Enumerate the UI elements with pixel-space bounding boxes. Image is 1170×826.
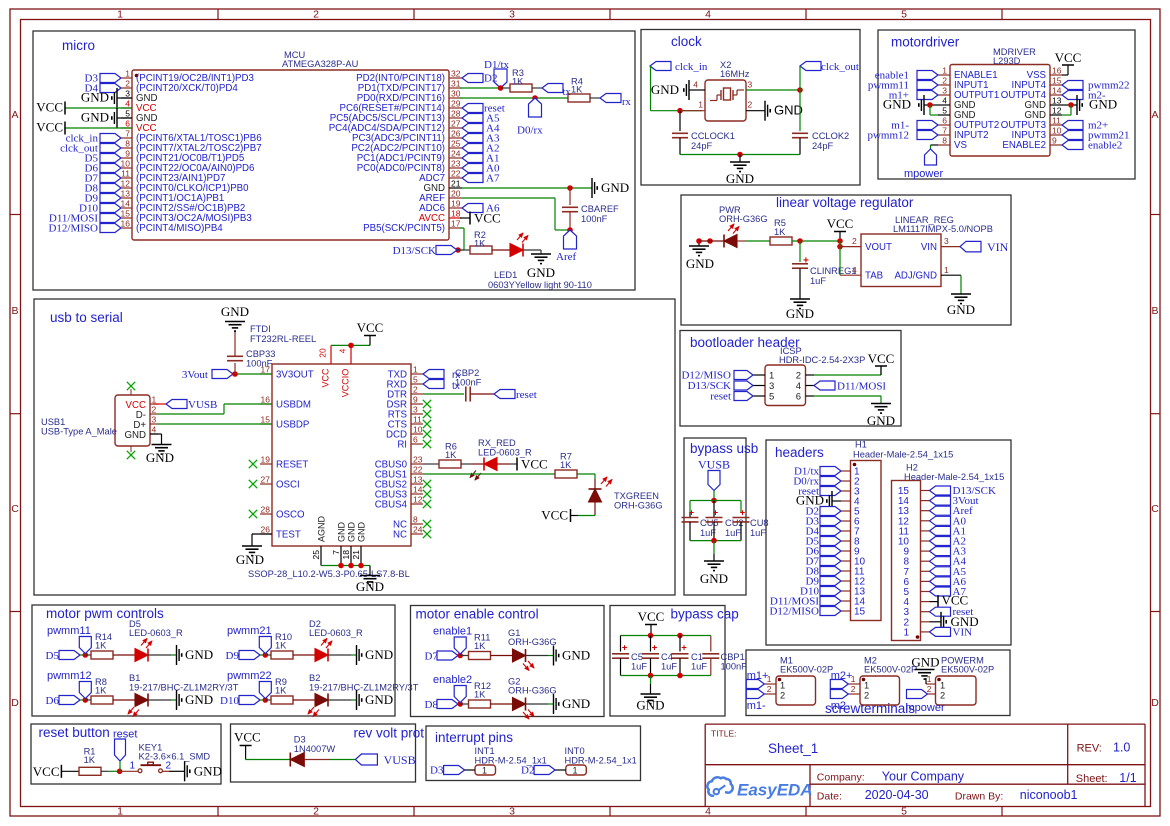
block box: usb to serial	[34, 299, 675, 595]
H1 pin 5	[841, 510, 851, 512]
wire R10 to LED	[293, 654, 315, 656]
MCU pin 2 (PCINT20/XCK/T0)PD4 stub	[121, 87, 132, 89]
svg-text:ORH-G36G: ORH-G36G	[508, 686, 557, 696]
FT232RL pin 26 TEST	[260, 533, 272, 535]
netflag A3 (H2)	[930, 547, 951, 556]
MCU pin 19 ADC6 stub	[449, 207, 462, 209]
wire CBUS1 to R7	[423, 473, 555, 475]
H2 pin 3	[921, 611, 930, 613]
svg-text:GND: GND	[337, 522, 347, 543]
svg-text:mpower: mpower	[906, 702, 945, 714]
svg-text:1: 1	[117, 9, 123, 21]
wire to gnd bypass cap	[650, 676, 652, 685]
gnd flag H2 pin2	[930, 621, 942, 623]
svg-text:m2+: m2+	[831, 670, 853, 682]
svg-text:20: 20	[318, 348, 328, 358]
svg-text:4: 4	[125, 99, 130, 109]
wire down to CLINREG	[799, 241, 801, 262]
block box: linear voltage regulator	[681, 195, 1011, 325]
svg-text:GND: GND	[686, 256, 714, 271]
netflag pwmm21 (L293D)	[1062, 131, 1083, 140]
netflag D8	[437, 700, 458, 709]
capacitor CBP1	[710, 636, 712, 652]
svg-text:24: 24	[451, 149, 461, 159]
capacitor CBP33	[227, 355, 243, 357]
netflag D3 (MCU pin1)	[100, 74, 121, 83]
netflag D7 (MCU pin11)	[100, 174, 121, 183]
svg-text:ORH-G36G: ORH-G36G	[719, 214, 768, 224]
netflag D12/MISO (H1)	[820, 607, 841, 616]
svg-text:1: 1	[780, 681, 785, 691]
junction clck_out	[797, 87, 803, 93]
wire PWR to R5	[737, 240, 745, 242]
block box: clock	[641, 30, 860, 186]
wire CCLOCK1 column	[679, 111, 681, 131]
L293D pin 5 GND	[938, 114, 950, 116]
netflag pwmm22 vertical	[259, 682, 271, 699]
wire LED to gnd	[526, 655, 549, 657]
svg-text:D3: D3	[430, 765, 444, 777]
gnd flag	[176, 645, 178, 665]
junction Aref	[567, 227, 573, 233]
netflag D0/rx (H1)	[820, 477, 841, 486]
wire TXGREEN to VCC	[594, 502, 596, 516]
svg-text:GND: GND	[867, 413, 895, 428]
svg-text:21: 21	[451, 179, 461, 189]
resistor R4	[568, 94, 590, 102]
svg-text:2: 2	[780, 691, 785, 701]
svg-text:VUSB: VUSB	[384, 753, 416, 767]
junction pin21 / CBAREF top	[567, 185, 573, 191]
usb connector USB1 body	[115, 395, 150, 446]
wire junction to R10	[265, 654, 271, 656]
svg-text:EK500V-02P: EK500V-02P	[864, 665, 917, 675]
svg-text:GND: GND	[636, 698, 664, 713]
svg-text:clck_out: clck_out	[821, 61, 859, 73]
gnd earth ICSP	[871, 403, 891, 405]
svg-text:EasyEDA: EasyEDA	[737, 781, 813, 800]
resistor R5	[770, 237, 792, 245]
svg-text:VCC: VCC	[234, 730, 261, 745]
svg-text:+: +	[652, 643, 658, 654]
svg-text:GND: GND	[947, 302, 975, 317]
netflag VIN	[960, 241, 981, 252]
netflag m1- (L293D)	[917, 121, 938, 130]
netflag m2-	[830, 690, 848, 699]
svg-text:GND: GND	[365, 647, 393, 662]
svg-text:1.0: 1.0	[1113, 741, 1130, 755]
svg-text:A: A	[1151, 109, 1158, 121]
svg-text:GND: GND	[356, 579, 384, 594]
svg-text:GND: GND	[726, 171, 754, 186]
svg-text:6: 6	[942, 116, 947, 126]
wire VUSB down	[713, 491, 715, 501]
svg-text:pwmm12: pwmm12	[867, 130, 909, 142]
junction pin30	[532, 95, 538, 101]
svg-text:1K: 1K	[774, 227, 786, 237]
gnd flag	[356, 645, 358, 665]
svg-text:1: 1	[944, 265, 949, 275]
MCU pin 1 (PCINT19/OC2B/INT1)PD3 stub	[121, 77, 132, 79]
svg-text:RX_RED: RX_RED	[478, 438, 516, 448]
netflag reset (H2)	[930, 607, 951, 616]
netflag D8 (MCU pin12)	[100, 184, 121, 193]
L293D pin 6 OUTPUT2	[938, 124, 950, 126]
svg-text:19-217/BHC-ZL1M2RY/3T: 19-217/BHC-ZL1M2RY/3T	[309, 683, 419, 693]
svg-text:HDR-M-2.54_1x1: HDR-M-2.54_1x1	[475, 756, 547, 766]
svg-text:clck_in: clck_in	[675, 61, 708, 73]
svg-text:GND: GND	[700, 571, 728, 586]
svg-text:NC: NC	[393, 530, 407, 541]
wire CLINREG to gnd	[799, 269, 801, 300]
svg-text:GND: GND	[883, 97, 911, 112]
svg-text:ENABLE2: ENABLE2	[1002, 140, 1046, 151]
svg-text:motor pwm controls: motor pwm controls	[46, 606, 164, 621]
svg-text:Header-Male-2.54_1x15: Header-Male-2.54_1x15	[853, 450, 953, 460]
svg-text:16: 16	[261, 395, 271, 405]
FT232RL pin 11 CTS	[411, 423, 423, 425]
svg-text:3: 3	[748, 80, 753, 90]
block box: micro	[33, 31, 635, 290]
wire VCC to VOUT and TAB	[839, 241, 841, 275]
svg-text:4: 4	[705, 9, 711, 21]
svg-text:11: 11	[1052, 116, 1061, 126]
netflag m1+	[746, 680, 764, 689]
svg-text:1K: 1K	[445, 450, 457, 460]
capacitor C1	[679, 636, 681, 652]
svg-text:m1-: m1-	[747, 700, 766, 712]
netflag pwmm12 (L293D)	[917, 131, 938, 140]
H2 pin 15	[921, 490, 930, 492]
ICSP pins row 2	[753, 385, 765, 387]
svg-text:3: 3	[509, 806, 515, 818]
netflag A5	[462, 114, 483, 123]
netflag D2 (MCU pin32)	[462, 74, 483, 83]
svg-text:3V3OUT: 3V3OUT	[276, 370, 314, 381]
gnd earth bypass usb	[704, 560, 724, 562]
netflag clck_out (MCU pin8)	[100, 144, 121, 153]
wire junction to R2	[458, 249, 470, 251]
netflag reset vertical (button)	[115, 739, 126, 761]
gnd flag	[553, 694, 555, 714]
wire to R12	[460, 703, 468, 705]
svg-text:3: 3	[769, 381, 774, 392]
svg-text:rev volt prot: rev volt prot	[353, 726, 424, 741]
svg-text:1: 1	[125, 69, 130, 79]
svg-text:28: 28	[261, 505, 271, 515]
svg-text:1: 1	[940, 681, 945, 691]
svg-text:GND: GND	[562, 648, 590, 663]
svg-text:VCC: VCC	[36, 100, 63, 115]
svg-text:26: 26	[451, 129, 461, 139]
junction L293D gnd left	[927, 102, 933, 108]
svg-text:4: 4	[705, 806, 711, 818]
wire ICSP pin6 to GND	[814, 395, 881, 397]
wire bypass usb top bus	[690, 500, 741, 502]
netflag D9	[239, 651, 260, 660]
H2 pin 11	[921, 530, 930, 532]
netflag D4 (H1)	[820, 527, 841, 536]
svg-text:1: 1	[152, 395, 157, 405]
wire junction to R14	[85, 654, 91, 656]
svg-text:4: 4	[796, 381, 801, 392]
crystal symbol	[710, 100, 717, 102]
svg-text:18: 18	[341, 550, 351, 560]
block box: rev volt prot	[231, 724, 416, 782]
svg-text:m2-: m2-	[831, 700, 850, 712]
svg-text:A7: A7	[486, 173, 500, 185]
gnd flag H1 pin4	[831, 491, 833, 511]
gnd earth regulator right	[951, 293, 971, 295]
svg-text:11: 11	[413, 415, 422, 425]
svg-text:D12/MISO: D12/MISO	[48, 223, 98, 235]
wire R7 to TXGREEN	[577, 473, 595, 475]
svg-text:2: 2	[940, 691, 945, 701]
svg-text:1: 1	[769, 371, 774, 382]
svg-text:1uF: 1uF	[750, 528, 766, 538]
svg-text:2: 2	[748, 100, 753, 110]
svg-text:GND: GND	[651, 82, 679, 97]
svg-text:32: 32	[451, 69, 461, 79]
L293D pin 9 ENABLE2	[1050, 144, 1062, 146]
svg-text:13: 13	[413, 475, 423, 485]
svg-text:LED-0603_R: LED-0603_R	[309, 628, 363, 638]
svg-text:VIN: VIN	[953, 626, 973, 638]
resistor R2	[470, 246, 492, 254]
svg-text:4: 4	[693, 80, 698, 90]
svg-text:1uF: 1uF	[725, 528, 741, 538]
junction clock gnd	[737, 152, 743, 158]
svg-text:17: 17	[451, 219, 461, 229]
MCU pin 4 VCC stub	[121, 107, 132, 109]
svg-text:0603YYellow light 90-110: 0603YYellow light 90-110	[488, 280, 592, 290]
svg-text:21: 21	[351, 550, 361, 560]
svg-text:+: +	[803, 256, 809, 267]
svg-text:Date:: Date:	[817, 791, 842, 803]
gnd flag MCU pin5	[117, 117, 132, 119]
gnd earth TEST	[242, 545, 262, 547]
MCU pin 13 (PCINT1/OC1A)PB1 stub	[121, 197, 132, 199]
svg-text:EK500V-02P: EK500V-02P	[941, 665, 994, 675]
H1 pin 11	[841, 570, 851, 572]
svg-text:VCC: VCC	[36, 120, 63, 135]
svg-text:REV:: REV:	[1077, 743, 1102, 755]
svg-text:2: 2	[313, 806, 319, 818]
svg-text:30: 30	[451, 89, 461, 99]
svg-text:10: 10	[121, 159, 131, 169]
svg-text:1uF: 1uF	[661, 662, 677, 672]
svg-text:14: 14	[1052, 86, 1062, 96]
wire CBUS0 to R6	[423, 463, 439, 465]
svg-text:B2: B2	[309, 673, 320, 683]
svg-text:1K: 1K	[95, 641, 107, 651]
svg-text:GND: GND	[185, 692, 213, 707]
netflag D2 (H1)	[820, 507, 841, 516]
svg-text:D1/tx: D1/tx	[484, 59, 510, 71]
svg-text:2: 2	[125, 79, 130, 89]
netflag D13/SCK (ICSP)	[734, 381, 753, 390]
netflag A1 (H2)	[930, 526, 951, 535]
gnd flag L293D pin4	[923, 95, 925, 115]
H2 pin 6	[921, 580, 930, 582]
netflag clck_in (MCU pin7)	[100, 134, 121, 143]
wire L293D pin4-pin5	[929, 105, 931, 115]
svg-text:1uF: 1uF	[691, 662, 707, 672]
op MCU ATMEGA328P-AU body U1	[132, 70, 449, 240]
wire junction to R8	[85, 699, 91, 701]
svg-text:+: +	[740, 508, 745, 518]
svg-text:ATMEGA328P-AU: ATMEGA328P-AU	[282, 59, 358, 69]
netflag A6 (pin19)	[462, 204, 483, 213]
svg-text:reset: reset	[516, 389, 537, 401]
H2 pin 10	[921, 540, 930, 542]
svg-text:3Vout: 3Vout	[182, 369, 208, 381]
FT232RL pin 19 RESET	[260, 463, 272, 465]
vcc flag ICSP	[875, 365, 887, 367]
MCU pin 6 VCC stub	[121, 127, 132, 129]
svg-text:11: 11	[121, 169, 130, 179]
svg-text:B: B	[11, 305, 18, 317]
netflag pwmm11 vertical	[79, 637, 91, 654]
vcc flag L293D pin16 VSS	[1062, 74, 1068, 76]
H2 pin 7	[921, 570, 930, 572]
resistor R10	[271, 651, 293, 659]
L293D pin 7 INPUT2	[938, 134, 950, 136]
netflag reset (H1)	[820, 487, 841, 496]
svg-text:B: B	[1151, 305, 1158, 317]
H1 pin 9	[841, 550, 851, 552]
svg-text:TAB: TAB	[865, 271, 883, 282]
svg-text:15: 15	[854, 607, 866, 618]
svg-text:9: 9	[413, 395, 418, 405]
M2 pin stubs	[848, 683, 860, 685]
svg-text:1K: 1K	[512, 77, 524, 87]
svg-text:CCLOK2: CCLOK2	[812, 131, 849, 141]
junction pin31	[498, 85, 504, 91]
wire R11 to LED	[491, 655, 513, 657]
netflag D7 (H1)	[820, 557, 841, 566]
netflag D7	[437, 651, 458, 660]
svg-text:1N4007W: 1N4007W	[294, 744, 336, 754]
FT232RL pin 23 CBUS0	[411, 463, 423, 465]
svg-text:1K: 1K	[275, 686, 287, 696]
svg-text:3: 3	[152, 415, 157, 425]
svg-text:pwmm11: pwmm11	[47, 625, 91, 637]
netflag A1	[462, 154, 483, 163]
FT232RL bottom pins AGND GND GND GND	[320, 546, 322, 566]
wire R14 to LED	[113, 654, 135, 656]
svg-text:GND: GND	[774, 103, 803, 118]
FT232RL pin 22 CBUS1	[411, 473, 423, 475]
svg-text:13: 13	[1052, 96, 1062, 106]
wire gnd to PWR led	[699, 240, 724, 242]
resistor R14	[91, 651, 113, 659]
svg-text:5: 5	[413, 375, 418, 385]
LED B1	[135, 694, 148, 707]
svg-text:CBUS4: CBUS4	[375, 500, 408, 511]
MCU pin 11 (PCINT23/AIN1)PD7 stub	[121, 177, 132, 179]
FT232RL pin 1 TXD	[411, 373, 423, 375]
H2 pin 14	[921, 500, 930, 502]
svg-text:mpower: mpower	[904, 168, 943, 180]
svg-text:3: 3	[942, 86, 947, 96]
svg-text:D2: D2	[521, 765, 534, 777]
netflag D11/MOSI (MCU pin15)	[100, 214, 121, 223]
svg-text:D5: D5	[46, 650, 60, 662]
svg-text:24: 24	[413, 525, 423, 535]
svg-text:D11/MOSI: D11/MOSI	[837, 381, 886, 393]
resistor R8	[91, 696, 113, 704]
FT232RL pin 8 NC	[411, 523, 423, 525]
svg-text:19-217/BHC-ZL1M2RY/3T: 19-217/BHC-ZL1M2RY/3T	[129, 683, 239, 693]
MCU pin 9 (PCINT21/OC0B/T1)PD5 stub	[121, 157, 132, 159]
LED PWR	[724, 235, 737, 248]
wire LED to gnd	[328, 654, 351, 656]
junction PWR 2	[707, 238, 713, 244]
svg-text:TEST: TEST	[276, 530, 301, 541]
svg-text:VUSB: VUSB	[698, 458, 730, 472]
vcc flag H2 pin4	[930, 601, 939, 603]
svg-text:100nF: 100nF	[246, 359, 273, 369]
svg-text:L293D: L293D	[993, 56, 1021, 66]
netflag A7 (H2)	[930, 587, 951, 596]
netflag rx (FT232RL TXD)	[423, 370, 444, 379]
H2 pin 13	[921, 510, 930, 512]
svg-text:100nF: 100nF	[581, 214, 608, 224]
USB1 pin stubs	[150, 403, 158, 405]
svg-text:m1+: m1+	[747, 670, 769, 682]
svg-text:PB5(SCK/PCINT5): PB5(SCK/PCINT5)	[363, 223, 445, 234]
svg-text:8: 8	[942, 136, 947, 146]
block box: reset button	[31, 724, 221, 784]
svg-text:TITLE:: TITLE:	[711, 729, 737, 739]
svg-text:(PCINT4/MISO)PB4: (PCINT4/MISO)PB4	[136, 223, 223, 234]
svg-text:bypass cap: bypass cap	[671, 607, 739, 622]
H1 pin 13	[841, 590, 851, 592]
svg-text:5: 5	[769, 392, 774, 403]
svg-text:GND: GND	[81, 90, 109, 105]
svg-text:clock: clock	[671, 34, 702, 49]
wire ADJ/GND pin1 to gnd	[941, 274, 961, 276]
svg-text:19: 19	[451, 199, 461, 209]
svg-text:100nF: 100nF	[455, 378, 482, 388]
netflag m2+ (L293D)	[1062, 121, 1083, 130]
wire bypass cap top bus	[621, 635, 711, 637]
resistor R11	[469, 652, 491, 660]
vcc flag MCU pin6	[65, 127, 132, 129]
svg-text:GND: GND	[357, 522, 367, 543]
netflag D3 (INT1)	[444, 766, 465, 775]
wire USB1 D- to USBDM	[158, 413, 224, 415]
H1 pin 2	[841, 480, 851, 482]
svg-text:LM1117IMPX-5.0/NOPB: LM1117IMPX-5.0/NOPB	[893, 224, 993, 234]
svg-text:Header-Male-2.54_1x15: Header-Male-2.54_1x15	[904, 472, 1004, 482]
svg-text:27: 27	[451, 119, 461, 129]
wire R6 to RX_RED	[461, 463, 472, 465]
block box: bypass usb	[684, 438, 746, 595]
H1 pin 1	[841, 470, 851, 472]
L293D pin 2 INPUT1	[938, 84, 950, 86]
H2 pin 2	[921, 621, 930, 623]
svg-text:29: 29	[451, 99, 461, 109]
netflag A5 (H2)	[930, 567, 951, 576]
svg-text:CBP1: CBP1	[721, 652, 745, 662]
svg-text:28: 28	[451, 109, 461, 119]
gnd flag pin21	[591, 178, 593, 198]
netflag A2	[462, 144, 483, 153]
netflag D6 (MCU pin10)	[100, 164, 121, 173]
netflag reset (FT232RL)	[494, 390, 515, 399]
